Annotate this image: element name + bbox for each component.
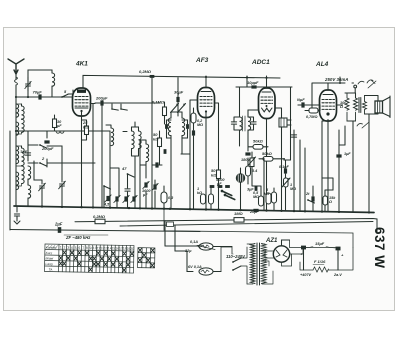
grid resistor R16	[305, 105, 320, 113]
wire IFT1 tops	[171, 109, 182, 112]
trimmer C12	[123, 195, 129, 202]
coil L3	[16, 122, 19, 135]
wire IFT2 bottom	[240, 140, 249, 151]
wire v119	[110, 168, 119, 208]
coil L5b	[16, 146, 24, 186]
tube ADC1	[259, 88, 276, 119]
trimmer R14	[282, 178, 290, 187]
svg-text:6V 0,1A: 6V 0,1A	[188, 265, 202, 269]
table frame	[45, 244, 134, 273]
svg-text:15µF: 15µF	[315, 241, 325, 246]
junction dots input	[15, 96, 29, 132]
power transformer primary winding	[251, 244, 256, 284]
svg-text:20: 20	[130, 247, 134, 251]
wire AF3 cathode down	[194, 113, 207, 210]
wire v285	[264, 159, 291, 212]
tube AF3	[198, 88, 215, 118]
resistor R15	[272, 188, 277, 211]
wire top line ADC1	[236, 86, 292, 88]
wire lower-left horizontal	[10, 230, 200, 232]
capacitor C2 10pF	[38, 94, 41, 99]
power transformer core	[257, 243, 260, 285]
output transformer primary zigzag	[354, 98, 358, 121]
junction dots bus	[41, 205, 370, 213]
svg-text:F 1/16: F 1/16	[314, 259, 326, 264]
resistor R6	[217, 170, 221, 179]
junction 250v	[339, 82, 341, 84]
wire switch to transformer	[221, 247, 247, 284]
wire h y131	[16, 130, 110, 132]
wire misc right	[322, 178, 333, 190]
trimmer C11	[114, 195, 120, 202]
speaker	[375, 96, 390, 118]
coil L6	[52, 73, 55, 86]
switch S7	[224, 194, 235, 200]
resistor R5	[191, 108, 196, 130]
coil L7	[56, 131, 64, 133]
svg-text:2: 2	[64, 246, 66, 250]
svg-text:?µF: ?µF	[20, 149, 28, 154]
output transformer core	[359, 98, 361, 113]
svg-text:NµF: NµF	[297, 97, 305, 102]
svg-text:TA: TA	[49, 268, 53, 272]
wire v62	[61, 161, 63, 176]
antenna	[8, 59, 24, 74]
jack terminal circle	[354, 85, 357, 88]
svg-text:30µF: 30µF	[174, 90, 184, 95]
label F116 underline	[313, 264, 324, 266]
resistor R19 15k	[323, 190, 333, 212]
padder trimmers C15	[143, 181, 149, 188]
wire ADC1 bottom	[266, 119, 268, 211]
capacitor C4	[25, 153, 30, 155]
svg-text:0,1A: 0,1A	[190, 240, 198, 244]
capacitor C21	[210, 185, 215, 188]
osc coil L13 loop	[140, 140, 149, 165]
resistor R11	[259, 190, 264, 206]
wire psu feeds	[165, 221, 175, 251]
wire c14	[152, 152, 162, 165]
svg-text:2t: 2t	[305, 192, 310, 196]
IFT2 core	[243, 116, 246, 131]
coil L4	[16, 146, 19, 164]
lower jack hooks	[357, 123, 369, 129]
svg-text:3.4: 3.4	[252, 169, 258, 173]
wire v305	[304, 148, 306, 211]
capacitor C19 30pF	[176, 97, 179, 102]
wire r10	[251, 152, 253, 170]
IFT2 coil L16	[240, 87, 243, 140]
table header shading	[46, 245, 58, 249]
resistor R13 50k	[248, 145, 268, 150]
coil L12	[139, 127, 142, 149]
wire v300	[299, 140, 301, 211]
svg-text:637 W: 637 W	[372, 227, 387, 269]
potentiometer P1	[236, 174, 244, 182]
output transformer secondary zigzag	[363, 96, 367, 115]
rectifier tube AZ1	[265, 246, 290, 262]
wire lower-left corner	[9, 131, 11, 230]
wire AL4 verticals down	[322, 120, 356, 213]
coil L1 (antenna curl)	[15, 77, 18, 85]
capacitor C0 on plate line	[150, 75, 155, 78]
capacitor C29	[291, 135, 296, 137]
svg-text:1µF: 1µF	[344, 152, 351, 156]
bus 3	[120, 222, 373, 227]
wire c19 down	[177, 102, 179, 116]
filter capacitor C33	[336, 247, 345, 270]
wire switch row2	[28, 159, 95, 167]
ground bus	[14, 206, 374, 213]
wire coil bank bottoms	[132, 149, 139, 170]
fuse lamp F1	[199, 243, 213, 250]
table header digits	[45, 245, 134, 273]
svg-text:4,5: 4,5	[103, 203, 110, 207]
wire psu left links	[165, 246, 232, 272]
trimmer C17 arrow	[171, 104, 179, 113]
wire left main vertical	[15, 97, 17, 206]
wire secondary loop	[365, 96, 379, 115]
coil L9	[28, 185, 31, 198]
wire ADC1 right	[275, 108, 282, 211]
table header row line	[45, 249, 134, 267]
svg-text:0,2MΩ: 0,2MΩ	[139, 69, 152, 74]
capacitor C31 1uF	[336, 145, 345, 158]
wire 4K1 cathode down	[81, 112, 83, 207]
svg-text:Mittel: Mittel	[46, 257, 54, 261]
svg-text:0,7MΩ: 0,7MΩ	[306, 115, 317, 119]
svg-text:0,1MΩ: 0,1MΩ	[152, 100, 165, 105]
switch S1	[61, 94, 68, 98]
svg-text:3µF: 3µF	[247, 188, 254, 192]
wire 250V line	[312, 77, 345, 108]
svg-text:+407V: +407V	[300, 273, 312, 277]
wire v93 screen	[92, 104, 94, 208]
wire plate line corner	[177, 78, 179, 97]
svg-text:4K1: 4K1	[75, 61, 88, 68]
wire L6 down	[51, 86, 53, 97]
switch S5	[103, 185, 110, 189]
junction dots plate line	[151, 75, 268, 79]
svg-text:8: 8	[86, 246, 88, 250]
mains switch S9	[232, 258, 241, 271]
coil bank below 4K1: coil L10	[111, 128, 114, 146]
svg-text:7: 7	[82, 246, 84, 250]
wire top trimmer loop	[28, 70, 52, 97]
headphone jack TA	[279, 118, 291, 127]
table X marks row Mittel	[59, 256, 62, 260]
svg-text:2µF: 2µF	[54, 222, 63, 227]
trimmer capacitor C1	[25, 77, 31, 91]
resistor R2	[158, 138, 162, 147]
wire mid link	[164, 209, 353, 248]
table X marks row Lang	[59, 261, 62, 265]
wire sw4	[128, 170, 136, 208]
capacitor C7 2uF	[58, 227, 62, 233]
svg-text:250V 36mA: 250V 36mA	[324, 77, 348, 82]
svg-text:70µF: 70µF	[33, 90, 43, 95]
wire trimmer links	[167, 120, 188, 138]
capacitor C3 200pF	[44, 140, 49, 143]
wire v294	[293, 130, 295, 211]
svg-text:50kΩ: 50kΩ	[262, 151, 273, 156]
switch S6	[221, 190, 232, 196]
resistor R21 1M on bus	[234, 218, 244, 223]
wire R2	[159, 131, 161, 152]
resistor R0 25k	[53, 115, 57, 131]
coupling capacitor C30	[298, 102, 309, 107]
power transformer secondary winding	[262, 244, 267, 284]
coil L8	[28, 166, 31, 179]
svg-text:47: 47	[121, 166, 127, 171]
switch S8	[307, 186, 315, 212]
wire 4K1 screen	[90, 103, 95, 105]
wire speaker loop down	[368, 114, 370, 213]
wire IFT1 bottom to AF3	[171, 138, 182, 209]
wire P1	[240, 168, 242, 210]
wire ADC1 plate	[266, 76, 268, 88]
IFT2 coil L17	[248, 110, 251, 140]
table X marks row Kurz	[59, 250, 134, 272]
wire c8 line	[95, 103, 160, 208]
capacitor C9	[125, 189, 130, 191]
wire coil bank top	[106, 122, 139, 132]
svg-text:50kΩ: 50kΩ	[253, 139, 264, 144]
table label column	[58, 244, 60, 271]
wire AF3 grid left	[181, 100, 198, 154]
wire s5	[103, 186, 105, 208]
bus 2	[75, 219, 377, 233]
switch S4	[127, 173, 134, 177]
svg-text:Lang: Lang	[45, 262, 52, 266]
wire v152	[151, 77, 153, 209]
wire plate line corner to IFT2	[246, 76, 248, 87]
capacitor C17b	[165, 124, 168, 129]
wire AL4 plate right	[337, 104, 343, 106]
IFT1 coil L15	[182, 112, 185, 138]
switch S4b	[111, 104, 118, 113]
wire AL4 grid	[298, 105, 320, 111]
wire heater line	[300, 248, 353, 271]
capacitor C28	[284, 168, 287, 173]
resistor R20 0.2M on wire	[95, 219, 105, 224]
resistor R12	[266, 193, 271, 204]
svg-text:5: 5	[75, 246, 77, 250]
wire az1 bottom	[282, 254, 292, 266]
svg-text:6: 6	[78, 246, 80, 250]
trimmer C5	[39, 180, 46, 207]
fuse lamp F2	[199, 268, 213, 275]
wire jack drop	[352, 83, 355, 93]
wire branch	[34, 161, 42, 180]
wire transformer taps	[247, 244, 265, 284]
svg-text:20µF: 20µF	[249, 210, 259, 214]
dial lamp arrow	[197, 245, 215, 249]
switch S2	[39, 144, 46, 148]
wire osc loop left	[139, 140, 141, 165]
svg-text:9: 9	[90, 246, 92, 250]
coil L3b	[16, 104, 24, 134]
wire R1	[82, 120, 87, 140]
svg-text:200µF: 200µF	[95, 96, 108, 101]
wire v140 down	[140, 165, 155, 209]
connector box	[167, 222, 174, 227]
wire v110	[109, 131, 111, 208]
wire 15uf arrows	[305, 247, 335, 249]
cathode resistor R18 zigzag	[345, 93, 349, 121]
diode load resistor R9	[246, 158, 251, 184]
svg-text:AZ1: AZ1	[265, 238, 278, 244]
svg-text:0,2MΩ: 0,2MΩ	[93, 214, 106, 219]
svg-text:Kurz: Kurz	[46, 251, 53, 255]
wire v252	[252, 170, 261, 190]
trimmer C6	[59, 176, 66, 207]
svg-text:ADC1: ADC1	[251, 59, 270, 66]
svg-text:Kontakt: Kontakt	[46, 246, 57, 250]
smoothing resistor R22	[313, 267, 329, 272]
wire v190 down	[189, 154, 191, 209]
resistor R7	[201, 194, 206, 204]
capacitor C8 200pF	[100, 100, 103, 105]
capacitor C26b 3uF	[247, 186, 257, 191]
svg-text:1MΩ: 1MΩ	[234, 211, 244, 216]
wire left coils to bus	[27, 179, 29, 206]
wire AL4 plate to transformer	[337, 93, 356, 105]
node antenna-grid line	[16, 96, 73, 98]
coil L2	[16, 104, 19, 117]
trimmer C16	[152, 183, 158, 190]
small table X marks	[138, 248, 154, 267]
wire AZ1 top	[282, 240, 290, 246]
wire AF3 right	[215, 103, 219, 210]
capacitor C27	[253, 209, 258, 212]
svg-text:3: 3	[67, 246, 69, 250]
wire v353 down	[352, 121, 354, 213]
svg-text:ZF ~480 kHz: ZF ~480 kHz	[65, 235, 91, 240]
capacitor C20	[192, 130, 195, 135]
capacitor C14	[155, 162, 158, 167]
wire AF3 plate top	[205, 76, 207, 88]
svg-text:2a.V: 2a.V	[333, 273, 342, 277]
svg-text:0,2MΩ: 0,2MΩ	[197, 119, 203, 127]
svg-text:10µµF: 10µµF	[247, 80, 259, 85]
table column grid	[62, 244, 130, 273]
ground left	[14, 206, 20, 224]
IFT1 coil L14	[168, 112, 171, 138]
switch S3	[39, 162, 46, 166]
wire transformer bottom	[265, 261, 273, 284]
wire AL4 top	[327, 83, 329, 90]
resistor R3	[161, 186, 167, 209]
capacitor C24	[231, 117, 239, 130]
svg-text:1: 1	[60, 246, 62, 250]
resistor R13b 50k	[259, 157, 285, 162]
capacitor C14b	[164, 149, 167, 154]
svg-text:AL4: AL4	[315, 61, 329, 68]
switch S4c	[120, 104, 127, 113]
wire ZF arrow	[64, 234, 108, 236]
wire antenna down	[15, 74, 17, 97]
resistor R8	[209, 188, 214, 210]
svg-text:0,1µF: 0,1µF	[279, 165, 289, 169]
tube 4K1	[73, 88, 91, 116]
svg-text:AF3: AF3	[195, 57, 209, 64]
filter capacitor C32	[300, 246, 306, 270]
capacitor C23 10pF	[251, 85, 256, 88]
variable resistor R10	[248, 157, 255, 167]
capacitor C22	[218, 185, 223, 188]
trimmer C13	[131, 195, 137, 202]
wire top plate line	[83, 75, 280, 88]
jack hooks	[358, 80, 376, 88]
resistor R1 25k	[85, 126, 89, 135]
wire ADC1 grid	[248, 109, 259, 111]
svg-text:4: 4	[71, 246, 73, 250]
table X marks row TA	[89, 267, 92, 271]
wire switch row1	[28, 131, 62, 161]
trimmer C10	[105, 195, 111, 202]
wire AZ1 to caps	[290, 240, 339, 254]
coil L11	[132, 127, 135, 149]
wire grid to tube	[319, 104, 322, 106]
capacitor C26	[245, 152, 250, 155]
small table	[138, 248, 155, 268]
capacitor C18b	[186, 124, 189, 129]
resistor R4	[163, 102, 167, 124]
trimmer C18 arrow	[178, 104, 186, 113]
coil L5	[16, 172, 19, 190]
wire grid cap to tube	[68, 90, 73, 94]
wire mid right area	[290, 87, 292, 160]
capacitor C25	[248, 117, 256, 130]
svg-text:0,5MΩ: 0,5MΩ	[253, 191, 259, 199]
tube AL4	[320, 90, 337, 121]
